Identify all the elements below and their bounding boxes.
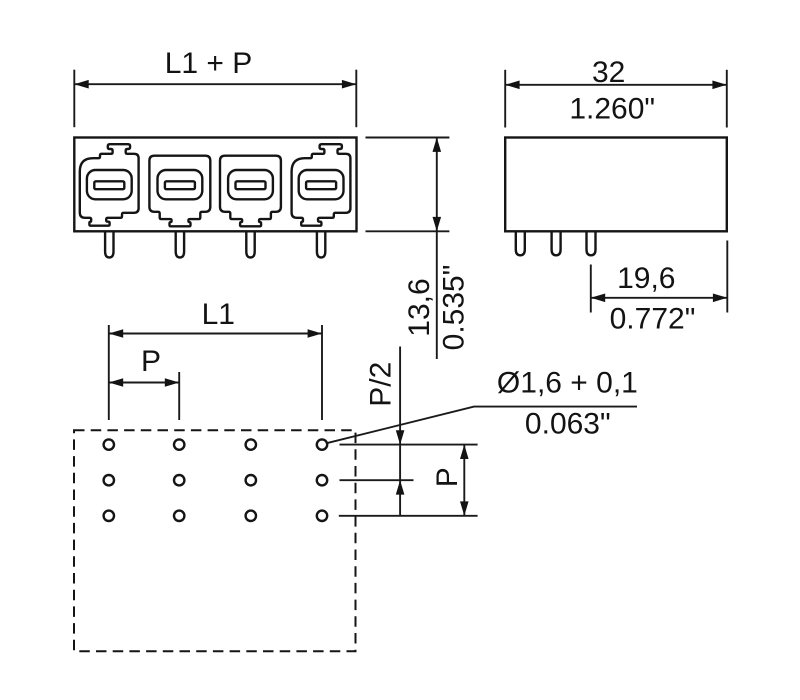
- svg-text:32: 32: [592, 56, 625, 89]
- contact 4 inner frame: [299, 170, 344, 199]
- dimension 13,6 arrowheads: [433, 138, 442, 232]
- front pin 1: [105, 232, 113, 258]
- drilling plan dashed outline: [74, 430, 356, 651]
- dimension 13,6 extension lines: [366, 138, 450, 232]
- contact 1 outline (end style): [80, 144, 139, 226]
- side pin 3: [587, 232, 596, 256]
- svg-text:1.260": 1.260": [569, 93, 655, 126]
- contact 2 outline (middle style): [149, 156, 210, 227]
- dimension L1+P extension lines: [74, 70, 356, 128]
- dimension P vertical line: [463, 445, 465, 516]
- dimension L1+P arrowheads: [74, 80, 356, 89]
- dimension 32 line: [505, 84, 727, 86]
- front pin 4: [317, 232, 325, 258]
- hole row reference line 3: [339, 515, 478, 517]
- contact 2 inner frame: [158, 170, 203, 199]
- hole row reference line 2: [340, 479, 414, 481]
- front view body: [74, 138, 356, 232]
- hole row reference line 1: [340, 444, 478, 446]
- dimension L1 arrowheads: [109, 329, 322, 338]
- dimension 32 arrowheads: [505, 81, 727, 90]
- svg-text:0.063": 0.063": [525, 408, 611, 441]
- hole row 2: [104, 475, 328, 485]
- label P vertical (rotated): [431, 467, 464, 487]
- dimension 32 extension lines: [505, 70, 727, 128]
- label 13,6 (rotated): [403, 278, 436, 336]
- dimension P extension line: [178, 372, 180, 420]
- svg-text:19,6: 19,6: [617, 262, 675, 295]
- side view body: [505, 138, 727, 232]
- contact 4 slot: [306, 181, 336, 189]
- contact 3 inner frame: [228, 170, 273, 199]
- contact 2 slot: [165, 181, 195, 189]
- svg-text:P: P: [431, 467, 464, 487]
- contact 4 outline (end style): [292, 144, 351, 226]
- svg-text:L1 + P: L1 + P: [165, 47, 253, 80]
- svg-text:P/2: P/2: [365, 362, 398, 407]
- hole row 3: [104, 511, 328, 521]
- front pin 3: [246, 232, 254, 258]
- dimension 19,6 arrowheads: [591, 294, 728, 303]
- dimension P arrowheads: [109, 378, 179, 387]
- dimension L1 extension lines: [109, 325, 322, 420]
- dimension 13,6 line with fraction bar: [436, 138, 438, 360]
- svg-text:0.535": 0.535": [438, 265, 471, 351]
- contact 1 inner frame: [87, 170, 132, 199]
- contact 3 outline (middle style): [220, 156, 281, 227]
- svg-text:L1: L1: [202, 298, 235, 331]
- dimension P line: [109, 382, 179, 384]
- dimension P/2 line: [399, 347, 401, 516]
- hole row 1: [104, 439, 328, 449]
- svg-text:0.772": 0.772": [610, 303, 696, 336]
- svg-text:Ø1,6 + 0,1: Ø1,6 + 0,1: [497, 367, 638, 400]
- hole diameter leader line: [327, 407, 637, 444]
- dimension 19,6 extension lines: [591, 241, 728, 313]
- side pin 2: [552, 232, 561, 256]
- svg-text:P: P: [141, 345, 161, 378]
- contact 3 slot: [236, 181, 266, 189]
- dimension L1 line: [109, 333, 322, 335]
- dimension L1+P line: [74, 83, 356, 85]
- label 0.535" (rotated): [438, 265, 471, 351]
- side pin 1: [516, 232, 525, 256]
- dimension P vertical arrowheads: [460, 445, 469, 516]
- dimension P/2 arrowheads: [396, 430, 405, 494]
- dimension 19,6 line: [591, 297, 728, 299]
- contact 1 slot: [94, 181, 124, 189]
- front pin 2: [176, 232, 184, 258]
- label P/2 (rotated): [365, 362, 398, 407]
- svg-text:13,6: 13,6: [403, 278, 436, 336]
